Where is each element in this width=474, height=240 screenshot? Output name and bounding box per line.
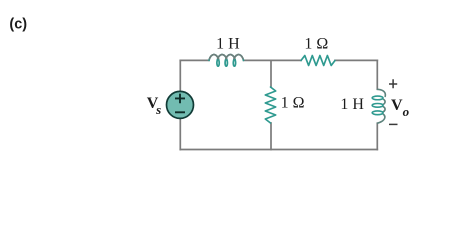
- svg-text:1 H: 1 H: [340, 96, 364, 113]
- svg-text:1 Ω: 1 Ω: [304, 35, 328, 52]
- svg-text:(c): (c): [9, 16, 27, 32]
- svg-text:1 Ω: 1 Ω: [281, 95, 305, 112]
- svg-text:1 H: 1 H: [216, 36, 240, 53]
